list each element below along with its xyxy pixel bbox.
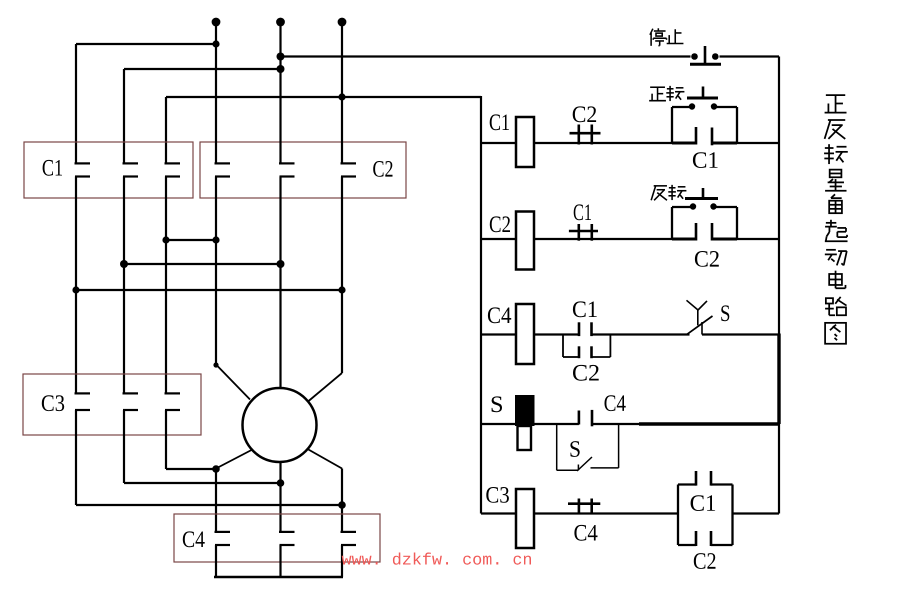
label C2 coil bbox=[490, 216, 510, 232]
contactor C2 main contacts box bbox=[200, 142, 406, 198]
C4 main contact 3 bbox=[341, 531, 357, 533]
C2 main contact 3 bbox=[341, 162, 357, 164]
label C3 coil bbox=[486, 487, 509, 503]
junction node V bbox=[277, 479, 285, 487]
label C1 NO rung3 bbox=[573, 301, 597, 317]
rung1 wire mid bbox=[534, 142, 697, 144]
time contact S rung3 bbox=[687, 300, 699, 310]
NC contact C1 rung2 bbox=[577, 224, 580, 241]
phase terminal dot L3 bbox=[338, 18, 347, 27]
C1 main contact 3 bbox=[165, 162, 181, 164]
contactor C4 main contacts box bbox=[174, 514, 380, 562]
C4 main contact 2 bbox=[279, 531, 295, 533]
wire star point mid bbox=[279, 545, 281, 577]
junction bbox=[277, 260, 285, 268]
C2 main contact 1 bbox=[215, 162, 231, 164]
control left bus bbox=[480, 96, 482, 514]
interlock block rung5 bbox=[677, 485, 679, 546]
label C1 block rung5 bbox=[691, 495, 716, 511]
junction L2 control feed bbox=[277, 53, 285, 61]
relay coil S filled bbox=[515, 395, 535, 426]
label C4 coil bbox=[488, 307, 511, 323]
NO contact C1 rung5 bbox=[695, 471, 698, 486]
wire C3 out 1 to node W bbox=[75, 410, 77, 505]
wire feed L3 to left branch 3 and control left bus bbox=[166, 96, 481, 98]
C1 main contact 1 bbox=[75, 162, 91, 164]
stop button wire bbox=[720, 55, 780, 57]
rung4 wire mid bbox=[592, 423, 640, 425]
wire motor lead W vertical bbox=[341, 177, 343, 374]
wire motor lead U vertical bbox=[215, 177, 217, 366]
label C2 NC rung1 bbox=[573, 106, 596, 122]
label C1 NC rung2 bbox=[574, 204, 591, 220]
label C2 self-hold bbox=[695, 251, 719, 267]
wire motor bottom lead Y vertical bbox=[279, 462, 281, 483]
wire left branch2 lower bbox=[123, 177, 125, 394]
label C1 coil bbox=[490, 114, 509, 130]
wire left branch3 lower bbox=[165, 177, 167, 394]
wire C3 out 2 to node V bbox=[123, 410, 125, 483]
wire star point right bbox=[341, 545, 343, 577]
wire node U down to C4 bbox=[215, 469, 217, 533]
NO contact C1 rung1 bbox=[695, 127, 698, 145]
wire motor bottom lead Z slant bbox=[308, 449, 343, 469]
wire feed L2 to left branch 2 bbox=[124, 68, 281, 70]
wire left branch1 lower bbox=[75, 177, 77, 394]
junction L1 feed bbox=[212, 40, 219, 47]
control right bus bbox=[778, 57, 780, 335]
label C4 NC rung5 bbox=[574, 525, 597, 541]
junction node W bbox=[338, 501, 346, 509]
coil C4 bbox=[516, 304, 534, 364]
junction bbox=[212, 236, 219, 243]
wire motor lead V vertical bbox=[279, 177, 281, 389]
NO contact C2 rung3 branch bbox=[578, 346, 581, 358]
wire star bar bbox=[214, 576, 343, 578]
pushbutton forward NO bbox=[702, 87, 705, 98]
rung2 wire mid bbox=[534, 238, 696, 240]
wire crossover C bbox=[76, 289, 342, 291]
label C1 self-hold bbox=[693, 152, 718, 168]
rung1 wire left bbox=[481, 142, 516, 144]
label C2 block rung5 bbox=[694, 553, 716, 569]
contactor C3 main contacts box bbox=[23, 374, 201, 435]
label C1 main box bbox=[43, 160, 62, 176]
pushbutton stop NC bbox=[704, 46, 707, 65]
wire motor lead U slant bbox=[216, 365, 250, 400]
junction L3 feed bbox=[338, 93, 345, 100]
wire main vertical L1a upper bbox=[215, 22, 217, 164]
rung2 wire right bbox=[737, 238, 779, 240]
NC contact C2 rung1 bbox=[577, 125, 580, 145]
label C4 NO rung4 bbox=[605, 395, 626, 411]
control right bus lower bbox=[778, 424, 780, 514]
junction node U bbox=[212, 465, 220, 473]
junction bbox=[120, 260, 128, 268]
junction L2 feed bbox=[277, 65, 285, 73]
coil C2 bbox=[516, 212, 534, 270]
wire node V down to C4 bbox=[279, 483, 281, 532]
rung3 wire to S contact bbox=[592, 333, 690, 335]
NO contact C4 rung4 bbox=[578, 411, 581, 425]
junction bend U bbox=[213, 362, 218, 367]
contactor C1 main contacts box bbox=[24, 142, 193, 198]
label C2 NO rung3 bbox=[573, 365, 599, 381]
C3 main contact 1 bbox=[75, 392, 91, 394]
NO contact C1 rung3 bbox=[578, 322, 581, 336]
junction bbox=[162, 236, 169, 243]
rung3 wire right bbox=[702, 333, 779, 335]
label C4 main box bbox=[183, 531, 205, 547]
motor M circle bbox=[243, 388, 317, 462]
C1 main contact 2 bbox=[123, 162, 139, 164]
wire feed L1 to left branch 1 bbox=[76, 43, 216, 45]
wire motor bottom lead X slant bbox=[216, 450, 252, 469]
rung5 wire left bbox=[481, 512, 516, 514]
rung1 wire right bbox=[737, 142, 779, 144]
rung3 wire left bbox=[481, 333, 516, 335]
C3 main contact 2 bbox=[123, 392, 139, 394]
rung4 wire left bbox=[481, 423, 579, 425]
phase terminal dot L1 bbox=[212, 18, 221, 27]
control right bus thick section bbox=[777, 334, 780, 425]
phase terminal dot L2 bbox=[276, 18, 285, 27]
wire node W down to C4 bbox=[341, 469, 343, 533]
label 停止 stop bbox=[650, 28, 667, 46]
self-hold box rung1 bbox=[671, 107, 673, 143]
rung5 wire right bbox=[733, 512, 780, 514]
rung4 S branch bbox=[556, 424, 558, 470]
rung3 wire mid bbox=[534, 333, 579, 335]
pushbutton reverse NO bbox=[702, 188, 705, 199]
coil C3 bbox=[516, 489, 534, 548]
rung3 parallel branch box bbox=[562, 335, 564, 358]
wire feed L2 to control right bus bbox=[281, 55, 691, 57]
C4 main contact 1 bbox=[215, 531, 231, 533]
wire crossover B bbox=[124, 263, 281, 265]
label 正转 forward bbox=[649, 87, 666, 100]
NO contact C2 rung5 bbox=[695, 531, 698, 546]
wire main vertical L2a upper bbox=[279, 22, 281, 164]
rung4 wire right thick bbox=[639, 422, 779, 425]
wire star point left bbox=[215, 545, 217, 577]
rung2 wire left bbox=[481, 238, 516, 240]
junction bbox=[72, 286, 79, 293]
wire main vertical L3a upper bbox=[341, 22, 343, 164]
label S coil bbox=[492, 396, 502, 412]
C2 main contact 2 bbox=[279, 162, 295, 164]
wire motor lead W slant bbox=[308, 373, 342, 402]
title 正反转星角起动电路图 vertical bbox=[825, 95, 847, 113]
label S branch bbox=[570, 441, 579, 457]
NO contact C2 rung2 bbox=[695, 223, 698, 241]
watermark www.dzkfw.com.cn bbox=[342, 553, 531, 565]
coil C1 bbox=[516, 117, 534, 167]
label 反转 reverse bbox=[651, 186, 667, 200]
junction bbox=[338, 286, 345, 293]
label S rung3 bbox=[721, 305, 729, 321]
wire C3 out 3 to node U bbox=[165, 410, 167, 469]
C3 main contact 3 bbox=[165, 392, 181, 394]
label C2 main box bbox=[373, 161, 392, 177]
wire crossover A bbox=[166, 239, 216, 241]
self-hold box rung2 bbox=[671, 207, 673, 239]
NC contact C4 rung5 bbox=[578, 499, 581, 515]
label C3 main box bbox=[42, 395, 64, 411]
rung5 wire mid bbox=[534, 512, 678, 514]
